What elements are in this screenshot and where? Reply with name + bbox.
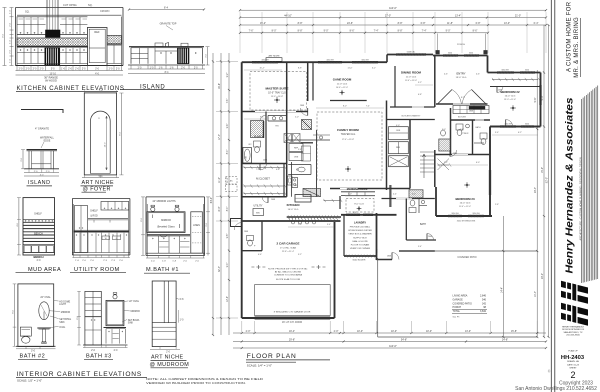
closet rod: [324, 200, 341, 202]
svg-text:15'-0" x 16'-8": 15'-0" x 16'-8": [271, 96, 284, 98]
svg-text:2868: 2868: [244, 231, 248, 233]
svg-text:SAN ANTONIO, TX: SAN ANTONIO, TX: [564, 331, 583, 334]
ceiling fan bed2: [510, 107, 516, 109]
svg-text:20'-2": 20'-2": [541, 273, 544, 279]
svg-text:10'-0" CLG: 10'-0" CLG: [460, 203, 471, 205]
porch posts and slab: [437, 34, 439, 55]
svg-text:4050 SH: 4050 SH: [504, 124, 512, 126]
svg-text:DW: DW: [294, 185, 297, 187]
svg-text:6'-2": 6'-2": [518, 132, 522, 134]
svg-text:KITCHEN: KITCHEN: [287, 203, 300, 207]
svg-text:ART NICHE: ART NICHE: [82, 180, 114, 186]
left dimension lines: [212, 53, 214, 335]
svg-text:546: 546: [482, 298, 487, 301]
door: master entry: [300, 108, 308, 116]
svg-text:11'-0" x 12'-4": 11'-0" x 12'-4": [459, 206, 471, 208]
wall: hall east wall: [435, 187, 437, 216]
svg-text:9'-0": 9'-0": [227, 263, 229, 268]
interior dim short lines: [244, 69, 282, 71]
kitchen counter + sink: [288, 164, 311, 166]
svg-text:A CUSTOM HOME FOR: A CUSTOM HOME FOR: [567, 1, 573, 72]
svg-text:2668: 2668: [498, 90, 502, 92]
svg-text:14310 NORTHBROOK: 14310 NORTHBROOK: [562, 329, 585, 331]
svg-text:11'-0" CLG: 11'-0" CLG: [406, 76, 417, 78]
kitchen island: [295, 195, 311, 203]
wall: rear wall bed3: [436, 215, 492, 217]
wall: gallery south: [451, 119, 491, 121]
island elevation (kitchen island): [120, 6, 210, 90]
svg-text:Beveled Glass: Beveled Glass: [157, 224, 175, 228]
svg-text:32'-4": 32'-4": [218, 266, 221, 272]
svg-text:9'-4": 9'-4": [227, 124, 229, 129]
svg-text:DRAWN: HH: DRAWN: HH: [567, 360, 579, 363]
wall: entry/bed2 jog: [487, 56, 489, 73]
niche arch: [91, 111, 111, 173]
svg-text:PROVIDE 2x6 WALL: PROVIDE 2x6 WALL: [350, 226, 371, 229]
svg-text:4'-4": 4'-4": [393, 194, 397, 196]
morning tray dashed: [346, 199, 374, 213]
svg-text:3050 SH WINDOWS: 3050 SH WINDOWS: [457, 221, 476, 223]
svg-text:110'-6": 110'-6": [389, 344, 397, 348]
bath3 leaders: [124, 300, 128, 303]
svg-text:3050: 3050: [525, 124, 529, 126]
wall: bedroom2 top: [488, 72, 541, 74]
svg-text:2: 2: [570, 370, 575, 380]
svg-text:14'-4": 14'-4": [534, 291, 537, 297]
svg-text:9'-8": 9'-8": [227, 234, 229, 239]
patio edge bottom: [378, 336, 538, 338]
svg-text:13'-0": 13'-0": [465, 330, 471, 333]
svg-text:Henry Hernandez & Associate: Henry Hernandez & Associates: [565, 97, 576, 273]
svg-text:2'-0": 2'-0": [246, 330, 251, 333]
svg-text:9'-6": 9'-6": [534, 97, 537, 102]
svg-text:3'-0: 3'-0: [31, 350, 36, 353]
svg-text:2,846: 2,846: [480, 295, 487, 298]
svg-text:KITCHEN CABINET ELEVATIONS: KITCHEN CABINET ELEVATIONS: [17, 86, 125, 92]
wall: dining west: [394, 66, 396, 107]
svg-text:W/ HOOD: W/ HOOD: [45, 78, 57, 82]
cabinet: ovens: [389, 127, 409, 140]
wall: mbath/closet divider: [242, 163, 287, 165]
svg-text:6'-2": 6'-2": [372, 68, 376, 70]
svg-text:M.BATH #1: M.BATH #1: [146, 267, 179, 273]
utility base: [74, 229, 129, 231]
master suite tray ceiling dashed: [250, 72, 307, 110]
svg-text:BUTLER: BUTLER: [458, 117, 466, 119]
entry double door: [438, 90, 453, 105]
svg-text:5'-8": 5'-8": [298, 149, 302, 151]
wall: butler east: [409, 120, 411, 189]
window zigzag textures: [252, 61, 255, 63]
title block column: [515, 0, 598, 392]
svg-text:BEDROOM #2: BEDROOM #2: [500, 90, 520, 94]
svg-text:19'-4": 19'-4": [289, 330, 295, 333]
svg-text:SQ.: SQ.: [88, 3, 93, 7]
svg-text:6'-8": 6'-8": [421, 22, 426, 25]
svg-text:CUT OPNG: CUT OPNG: [63, 3, 77, 7]
svg-text:7'-4": 7'-4": [422, 30, 427, 33]
svg-text:SQ.: SQ.: [25, 9, 30, 13]
bath2 toilet: [20, 327, 31, 336]
svg-text:4'-8": 4'-8": [353, 212, 357, 214]
svg-text:17'-4": 17'-4": [218, 134, 221, 140]
svg-text:16' x 8' O.H. DOOR: 16' x 8' O.H. DOOR: [282, 322, 302, 324]
svg-text:4050 SH: 4050 SH: [326, 59, 334, 61]
FLOOR PLAN group: [210, 6, 551, 374]
wall: garage front (south): [242, 317, 335, 319]
wall: hall north: [242, 196, 287, 198]
svg-text:BUTLER'S PANTRY: BUTLER'S PANTRY: [402, 115, 421, 118]
svg-text:5'-4": 5'-4": [418, 246, 422, 248]
bath 2 elevation: [13, 284, 72, 360]
svg-text:PWDR: PWDR: [463, 133, 469, 135]
svg-text:3'-6": 3'-6": [495, 132, 499, 134]
bath3 tall cabinet: [85, 291, 101, 316]
utility upper cabinets: [101, 202, 129, 211]
svg-text:ART NICHE: ART NICHE: [268, 54, 280, 57]
svg-text:8'-8": 8'-8": [398, 30, 403, 33]
wall: dining front: [387, 54, 433, 56]
svg-text:13'-0" x 11'-6": 13'-0" x 11'-6": [504, 99, 516, 101]
svg-text:13'-10: 13'-10: [50, 73, 57, 75]
door: bed2 closet: [497, 87, 503, 93]
door: patio hall door: [392, 253, 399, 260]
svg-text:27'-0": 27'-0": [385, 14, 391, 17]
svg-text:MIRROR: MIRROR: [61, 312, 71, 314]
wall: nook divider: [301, 142, 314, 144]
wall: mud hall south: [242, 250, 262, 252]
svg-text:4050 SH: 4050 SH: [261, 59, 269, 61]
svg-text:10'-0": 10'-0": [426, 330, 432, 333]
powder in mud hall: [248, 240, 253, 246]
wall: gallery west: [450, 108, 452, 155]
svg-text:W/D: W/D: [256, 212, 260, 214]
svg-text:ARCHITECTURE - CUSTOM HOME PLA: ARCHITECTURE - CUSTOM HOME PLANNING - RE…: [580, 157, 583, 240]
svg-text:BATH: BATH: [420, 223, 426, 226]
fireplace hatched: [302, 120, 312, 130]
svg-text:UTILITY: UTILITY: [254, 205, 263, 208]
wall: bedroom2 right: [540, 73, 542, 127]
patio edge top: [399, 250, 537, 252]
svg-text:OVN: OVN: [294, 157, 299, 159]
door: bed3: [450, 150, 457, 157]
svg-text:OVAL: OVAL: [59, 326, 66, 329]
svg-text:EDGE: EDGE: [44, 139, 51, 142]
svg-text:9'-0": 9'-0": [324, 30, 329, 33]
svg-text:8' INSULATED O.H. GARAGE DOOR: 8' INSULATED O.H. GARAGE DOOR: [274, 311, 311, 314]
wall: bed3 north: [435, 154, 490, 156]
pantry label & stools: [292, 221, 295, 224]
svg-text:8'-8": 8'-8": [298, 68, 302, 70]
refrigerator cabinet: [87, 28, 107, 66]
svg-text:10'-0: 10'-0: [104, 142, 106, 148]
wall: jog at game/dining: [386, 55, 388, 63]
svg-text:6068 DBL: 6068 DBL: [407, 52, 415, 54]
gallery cabinets: [453, 106, 489, 114]
ref / oven boxes: [289, 144, 303, 152]
ceiling fan master: [274, 99, 280, 101]
wall: hall rear: [399, 250, 435, 252]
top dimension lines: [240, 9, 546, 11]
wall: laundry south: [344, 255, 377, 257]
svg-text:15'-2": 15'-2": [260, 22, 266, 25]
hearth hatched: [303, 189, 321, 197]
svg-text:ENTRY: ENTRY: [456, 72, 465, 76]
svg-text:8'-0": 8'-0": [218, 206, 221, 211]
svg-text:PLAN OF: PLAN OF: [568, 350, 578, 353]
svg-text:4" GRANITE: 4" GRANITE: [35, 127, 49, 130]
svg-text:NOTE: PROVIDE 5/8" TYPE X GYP.: NOTE: PROVIDE 5/8" TYPE X GYP. BD.: [268, 269, 308, 271]
wall: entry front: [433, 55, 488, 57]
wall: kitchen west: [286, 62, 288, 197]
island dishwasher dark: [177, 48, 189, 64]
svg-text:W/ RECESSED DRYER: W/ RECESSED DRYER: [348, 230, 372, 232]
svg-text:MIRROR: MIRROR: [161, 219, 171, 222]
svg-text:7'-4": 7'-4": [374, 30, 379, 33]
area table: [452, 295, 487, 319]
svg-text:8'-8": 8'-8": [298, 22, 303, 25]
wall: family south: [330, 188, 410, 190]
ceiling fan bed3: [464, 184, 470, 186]
svg-text:AT ALL WALLS & CEILING: AT ALL WALLS & CEILING: [275, 271, 302, 274]
svg-text:ART NICHE: ART NICHE: [151, 354, 183, 360]
svg-text:SLOPE SLAB TO DOOR: SLOPE SLAB TO DOOR: [276, 278, 301, 281]
svg-text:8'-8": 8'-8": [298, 30, 303, 33]
utility room elevation: [70, 199, 130, 273]
svg-text:2868: 2868: [469, 111, 473, 113]
svg-text:5'-0": 5'-0": [442, 129, 446, 131]
wall: west wall: [241, 62, 243, 318]
svg-text:54'-8": 54'-8": [401, 338, 407, 341]
svg-text:6'-4": 6'-4": [534, 22, 539, 25]
pantry shelves X: [284, 134, 292, 143]
cabinet: pantry2: [389, 156, 409, 167]
svg-text:5'-0": 5'-0": [348, 194, 352, 196]
sconces: [151, 205, 155, 207]
svg-text:11'-0": 11'-0": [227, 177, 229, 183]
svg-text:3050: 3050: [469, 53, 473, 55]
svg-text:3'-4": 3'-4": [327, 224, 331, 226]
svg-text:15'-8": 15'-8": [511, 330, 517, 333]
title: INTERIOR CABINET ELEVATIONS: [16, 371, 263, 385]
wall: laundry west: [343, 215, 345, 256]
svg-text:SCALE: 1/2" = 1'-0": SCALE: 1/2" = 1'-0": [17, 378, 42, 382]
svg-text:9'-0" CLG: 9'-0" CLG: [354, 204, 364, 206]
master bath 1 elevation: [141, 197, 210, 273]
svg-text:UTILITY ROOM: UTILITY ROOM: [74, 267, 120, 273]
svg-text:4'-0": 4'-0": [396, 125, 400, 127]
HH logo (vector): [561, 276, 588, 326]
master tub: [243, 148, 252, 164]
svg-text:MORNING ROOM: MORNING ROOM: [347, 188, 368, 191]
door mbath: [260, 115, 266, 121]
mud area elevation: [16, 198, 62, 273]
svg-text:2868: 2868: [300, 105, 304, 107]
wall: stair east: [434, 150, 436, 187]
svg-text:SINK: SINK: [59, 322, 65, 324]
entry landing bump left: [231, 219, 242, 227]
svg-text:VERIFY W/ OWNER: VERIFY W/ OWNER: [350, 248, 371, 250]
svg-text:7'-6": 7'-6": [249, 30, 254, 33]
svg-text:6'-8": 6'-8": [276, 169, 280, 171]
svg-text:PORCH: PORCH: [457, 44, 465, 46]
svg-text:3,832: 3,832: [480, 310, 487, 313]
svg-text:4'-6": 4'-6": [258, 254, 262, 256]
svg-text:42" MIRROR LIGHTS: 42" MIRROR LIGHTS: [152, 200, 176, 203]
garage slab recess: [255, 285, 331, 316]
wall: hall west opening: [390, 185, 392, 207]
closet rod: [244, 193, 285, 195]
svg-text:4'-0: 4'-0: [37, 259, 42, 262]
wall: bath2 west: [405, 199, 407, 241]
range: [292, 178, 298, 188]
svg-text:8'-0": 8'-0": [227, 207, 229, 212]
stairs / niche hall: [420, 151, 435, 153]
svg-text:11'-0": 11'-0": [218, 177, 221, 183]
svg-text:SEAL & SLOPE: SEAL & SLOPE: [352, 240, 368, 243]
svg-text:FLOOR PLAN: FLOOR PLAN: [247, 353, 297, 360]
bath3 vanity: [104, 327, 127, 329]
svg-text:CROWN: CROWN: [100, 10, 110, 13]
svg-text:3050: 3050: [525, 70, 529, 72]
svg-text:342: 342: [482, 302, 487, 305]
wall: hall south: [377, 259, 393, 261]
logo flourish stripes: [581, 99, 583, 283]
powder room: [456, 124, 463, 130]
svg-text:SQ. FT.: SQ. FT.: [453, 317, 461, 319]
svg-text:11'-4" x 13'-0": 11'-4" x 13'-0": [405, 80, 417, 82]
svg-text:8'-6": 8'-6": [350, 30, 355, 33]
svg-text:VENT BOX & WASHER: VENT BOX & WASHER: [348, 233, 372, 236]
family tray dashed: [317, 112, 382, 180]
door: bath2: [427, 234, 434, 241]
svg-text:8'-0": 8'-0": [272, 30, 277, 33]
svg-text:4'-0": 4'-0": [412, 194, 416, 196]
svg-text:MASTER SUITE: MASTER SUITE: [265, 87, 288, 91]
svg-text:13'-4": 13'-4": [455, 14, 461, 17]
svg-text:M.CLOSET: M.CLOSET: [256, 177, 270, 181]
svg-text:8'-2": 8'-2": [461, 97, 465, 99]
closet rod: [244, 167, 285, 169]
svg-text:SHELF: SHELF: [34, 213, 42, 216]
patio edge left: [377, 258, 379, 337]
svg-text:COMMON TO LIVING AREA: COMMON TO LIVING AREA: [274, 274, 303, 277]
svg-text:8'-0": 8'-0": [227, 150, 229, 155]
svg-text:10'-0": 10'-0": [357, 330, 363, 333]
svg-text:22" OVAL: 22" OVAL: [40, 296, 51, 299]
base cabinets: [17, 46, 88, 48]
svg-text:HH-2403: HH-2403: [561, 355, 585, 361]
art niche at foyer: [81, 91, 124, 193]
svg-text:7'-0": 7'-0": [298, 224, 302, 226]
powder shower hatched: [439, 139, 451, 151]
svg-text:3050 SH: 3050 SH: [451, 213, 459, 215]
svg-text:13'-0" CLG: 13'-0" CLG: [456, 77, 467, 79]
backsplash hatch: [17, 38, 88, 46]
master shower hatched: [251, 121, 264, 138]
svg-text:COVERED PATIO: COVERED PATIO: [457, 256, 476, 259]
bath #2 small: [480, 133, 487, 139]
mbath vanity: [268, 115, 287, 117]
svg-text:7'-0": 7'-0": [256, 169, 260, 171]
svg-text:LINEN: LINEN: [193, 225, 200, 227]
svg-text:6040 SLIDER: 6040 SLIDER: [353, 260, 366, 262]
closet rod: [438, 164, 450, 166]
kitchen bar hatch marks: [288, 217, 290, 221]
wall: entry south: [436, 103, 488, 105]
svg-text:San Antonio Dwellings 210.522.: San Antonio Dwellings 210.522.4652: [515, 386, 597, 392]
cabinet: ref: [389, 142, 409, 154]
wall: game/family divider: [330, 100, 367, 102]
svg-text:@ MUDROOM: @ MUDROOM: [150, 362, 190, 368]
counters along top y140: [287, 139, 330, 141]
svg-text:16'-8": 16'-8": [218, 83, 221, 89]
svg-text:2668: 2668: [271, 199, 275, 201]
wall: game west: [312, 62, 314, 100]
svg-text:2668: 2668: [428, 236, 432, 238]
svg-text:21'-0": 21'-0": [515, 14, 521, 17]
dishwasher dark: [45, 48, 60, 65]
AC pads dashed: [226, 177, 238, 184]
svg-text:5'-0": 5'-0": [295, 117, 299, 119]
water closet: [254, 141, 261, 147]
svg-text:@ FOYER: @ FOYER: [83, 187, 111, 193]
svg-text:6'-0": 6'-0": [476, 162, 480, 164]
svg-text:8'-6": 8'-6": [473, 30, 478, 33]
svg-text:SUPPLY BOX: SUPPLY BOX: [353, 237, 367, 239]
svg-text:5'-8": 5'-8": [460, 129, 464, 131]
art niche at mudroom: [150, 281, 190, 368]
wall: master south: [242, 111, 308, 113]
svg-text:9'-2": 9'-2": [298, 254, 302, 256]
svg-text:6'-8": 6'-8": [476, 22, 481, 25]
svg-text:BATH #3: BATH #3: [86, 354, 112, 360]
svg-text:44'-10": 44'-10": [284, 14, 292, 17]
wall: powder east: [472, 120, 474, 155]
svg-text:3050 SH: 3050 SH: [501, 70, 509, 72]
svg-text:OVN: OVN: [396, 130, 401, 132]
svg-text:22" OVAL: 22" OVAL: [129, 300, 140, 303]
svg-text:64'-4": 64'-4": [210, 197, 213, 203]
wall: laundry north: [341, 214, 397, 216]
linen cabinet: [191, 212, 203, 253]
svg-text:4'-6": 4'-6": [444, 74, 448, 76]
svg-text:INTERIOR CABINET ELEVATIONS: INTERIOR CABINET ELEVATIONS: [16, 371, 142, 378]
wall: dining east: [434, 56, 436, 108]
svg-text:11'-0": 11'-0": [348, 68, 353, 70]
bath2 shower hatched: [409, 190, 423, 198]
svg-text:10'-0" TRAY CLG: 10'-0" TRAY CLG: [268, 92, 286, 95]
svg-text:VERIFIED W/ BUILDER PRIOR TO C: VERIFIED W/ BUILDER PRIOR TO CONSTRUCTIO…: [146, 381, 246, 385]
svg-text:24'-6": 24'-6": [347, 22, 353, 25]
wall: hall south 2: [382, 198, 435, 200]
art niche bump in wall: [266, 58, 282, 62]
svg-text:3050 SH: 3050 SH: [472, 213, 480, 215]
svg-text:SHELF: SHELF: [90, 210, 98, 213]
wall: front wall master/game: [242, 61, 387, 63]
vanity: [147, 234, 190, 236]
svg-text:W: W: [105, 238, 107, 240]
door: mcloset: [260, 164, 267, 171]
svg-text:9'-2": 9'-2": [227, 73, 229, 78]
mud cubbies: [24, 246, 31, 253]
svg-text:8'-0": 8'-0": [343, 106, 347, 108]
svg-text:3050 SH: 3050 SH: [361, 59, 369, 61]
svg-text:ISLAND: ISLAND: [28, 180, 50, 186]
wall: bedroom2 bottom: [490, 126, 541, 128]
svg-text:9'-2": 9'-2": [418, 82, 422, 84]
bath3 sconce: [113, 293, 117, 295]
